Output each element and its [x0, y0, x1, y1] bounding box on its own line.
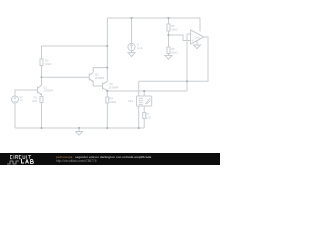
node Q3 emitter	[106, 90, 108, 92]
resistor R2	[40, 59, 43, 66]
ground below R6	[165, 56, 172, 60]
wire R5 top	[168, 18, 170, 24]
node rail-R1	[40, 127, 42, 129]
wire speaker left pin to rail	[138, 106, 140, 128]
wire R1 to rail	[41, 103, 43, 129]
wire I1 bottom	[131, 51, 133, 53]
svg-text:10kΩ: 10kΩ	[171, 50, 177, 54]
resistor R7	[143, 113, 146, 119]
svg-text:2N3904: 2N3904	[44, 89, 54, 93]
op-amp OA1	[191, 30, 205, 44]
node rail-R5	[167, 17, 169, 19]
logo LAB text	[21, 159, 33, 164]
node rail-speaker	[138, 127, 140, 129]
resistor R6	[167, 47, 170, 54]
node bus-Q2 collector	[106, 67, 108, 69]
wire inverting input stub	[187, 33, 191, 35]
svg-text:−: −	[191, 32, 193, 36]
svg-text:OA1: OA1	[195, 35, 201, 39]
wire Q1 emitter to R1	[41, 95, 43, 97]
junction dots	[40, 17, 188, 129]
wire Q1 collector up	[41, 66, 43, 86]
wire Q2 collector to bus	[93, 68, 107, 73]
ground on bottom rail	[76, 132, 83, 136]
wire R4 to rail	[106, 103, 108, 128]
wire emitter output line	[107, 90, 187, 92]
wire op-amp output	[139, 37, 208, 81]
wire op-amp ground stub	[196, 41, 198, 45]
node bus-R2	[106, 45, 108, 47]
ground below I1	[128, 53, 135, 57]
logo CIRCUIT text	[10, 155, 31, 158]
footer url	[56, 159, 97, 163]
wire V1 bottom	[14, 103, 16, 128]
svg-text:1V: 1V	[20, 98, 23, 102]
transistor Q2	[89, 72, 93, 81]
node rail-ground	[78, 127, 80, 129]
node Q1 collector tap	[40, 76, 42, 78]
wire Q1 collector to Q2 base	[42, 76, 90, 78]
wire Q3 emitter node	[106, 91, 108, 98]
wire collector bus vertical	[106, 18, 108, 82]
wire I1 top	[131, 18, 133, 43]
svg-text:SP1: SP1	[128, 99, 134, 103]
wire op-amp V+ from rail	[199, 18, 201, 32]
wire Q2 emitter to Q3 base	[93, 82, 102, 86]
footer credit text	[56, 155, 151, 159]
svg-text:2N3904: 2N3904	[95, 76, 105, 80]
svg-text:2N3904: 2N3904	[109, 85, 119, 89]
wire R2 top to bus	[42, 46, 108, 59]
speaker cone diagonal	[145, 98, 150, 104]
wire speaker right pin drop	[143, 91, 145, 96]
wire noninverting input jog	[169, 35, 191, 41]
svg-text:10kΩ: 10kΩ	[45, 62, 51, 66]
wire R7 to rail	[143, 119, 145, 129]
current source I1	[128, 43, 135, 50]
svg-text:10Ω: 10Ω	[146, 115, 151, 119]
svg-text:1mA: 1mA	[137, 46, 143, 50]
svg-text:+: +	[191, 39, 193, 43]
logo waveform	[7, 161, 19, 164]
node rail-R4	[106, 127, 108, 129]
wire V1 to Q1 base	[15, 90, 38, 96]
wire R6 bottom	[168, 54, 170, 56]
node divider tap	[167, 34, 169, 36]
wire ground stem on rail	[78, 128, 80, 132]
svg-text:1kΩ: 1kΩ	[32, 99, 37, 103]
wire feedback vertical	[186, 34, 188, 91]
wire top supply rail	[107, 17, 200, 19]
wire speaker right pin to R7	[143, 106, 145, 113]
svg-text:10kΩ: 10kΩ	[171, 27, 177, 31]
source V1	[12, 96, 19, 103]
node feedback-output	[186, 80, 188, 82]
wire R5 to node	[168, 31, 170, 47]
transistor Q3	[103, 81, 108, 90]
CircuitLab logo	[10, 155, 34, 160]
node rail-I1	[130, 17, 132, 19]
labels	[20, 24, 201, 119]
footer bar	[0, 153, 220, 165]
svg-text:100Ω: 100Ω	[110, 100, 117, 104]
ground below op-amp	[194, 45, 201, 49]
wire output drop to speaker	[138, 81, 140, 96]
node speaker tap	[143, 90, 145, 92]
wire bottom rail	[15, 127, 144, 129]
resistor R1	[40, 97, 43, 103]
resistor R4	[106, 97, 109, 103]
speaker coil bars	[139, 98, 143, 104]
transistor Q1	[38, 85, 42, 94]
speaker SP1 box	[137, 96, 152, 106]
resistor R5	[167, 24, 170, 31]
